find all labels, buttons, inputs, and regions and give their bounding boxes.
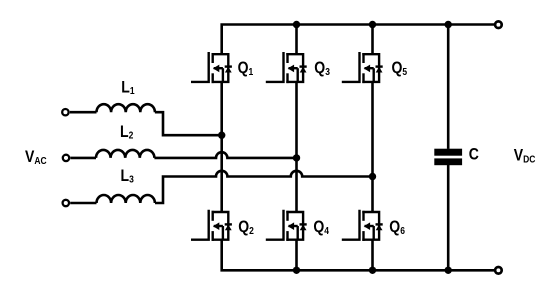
junction node B on leg2 <box>293 154 300 161</box>
MOSFET Q3 <box>266 52 307 83</box>
wire L1 to leg1 midpoint <box>155 112 222 135</box>
wire capacitor bottom lead <box>447 165 450 270</box>
wire leg2 top (Q3 drain) <box>295 25 298 55</box>
wire L3 to leg3 midpoint with hops over leg1 and leg2 <box>155 171 373 203</box>
inductor L3 <box>70 195 155 203</box>
wire leg2 bottom (Q4 source) <box>295 240 298 271</box>
MOSFET Q5 <box>342 52 383 83</box>
terminal -DC output <box>495 267 502 274</box>
svg-text:C: C <box>469 146 479 164</box>
terminal AC phase B <box>63 155 69 161</box>
MOSFET Q1 <box>191 52 232 83</box>
wire leg3 bottom (Q6 source) <box>371 240 374 271</box>
terminal +DC output <box>495 21 502 28</box>
junction node C on leg3 <box>369 173 376 180</box>
capacitor C top plate <box>434 149 462 156</box>
wire leg3 mid (Q5 source to Q6 drain) <box>371 82 374 212</box>
junction top bus leg2 <box>293 21 300 28</box>
capacitor C bottom plate <box>434 158 462 165</box>
junction bottom bus capacitor <box>445 267 452 274</box>
terminal AC phase C <box>63 200 69 206</box>
junction bottom bus leg3 <box>369 267 376 274</box>
inductor L2 <box>70 150 154 158</box>
wire top DC bus <box>222 25 494 55</box>
wire leg2 mid (Q3 source to Q4 drain) <box>295 82 298 212</box>
wire bottom DC bus <box>222 240 494 271</box>
terminal AC phase A <box>62 109 68 115</box>
junction node A on leg1 <box>218 132 225 139</box>
wire capacitor top lead <box>447 25 450 149</box>
wire L2 to leg2 midpoint with hop over leg1 <box>154 152 296 158</box>
wire leg1 mid (Q1 source to Q2 drain) <box>220 82 223 212</box>
junction top bus capacitor <box>445 21 452 28</box>
MOSFET Q2 <box>191 210 232 241</box>
inductor L1 <box>70 104 155 112</box>
MOSFET Q4 <box>266 210 307 241</box>
junction bottom bus leg2 <box>293 267 300 274</box>
wire leg3 top (Q5 drain) <box>371 25 374 55</box>
MOSFET Q6 <box>342 210 383 241</box>
junction top bus leg3 <box>369 21 376 28</box>
